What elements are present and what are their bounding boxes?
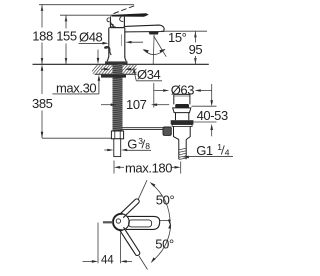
pivot corner ring	[111, 24, 114, 27]
dimension line 155	[65, 15, 67, 64]
tailpiece G 1 1/4	[178, 140, 180, 160]
arc 50 upper	[151, 184, 170, 224]
dimension line 95	[194, 31, 196, 64]
svg-text:8: 8	[145, 141, 150, 151]
counter bottom line	[95, 73, 137, 75]
dimension 107 (projection)	[101, 104, 112, 106]
inner cap circle	[116, 219, 120, 223]
svg-text:Ø34: Ø34	[137, 67, 161, 82]
dimension Ø63	[154, 90, 163, 92]
faucet body	[108, 28, 110, 58]
svg-text:95: 95	[189, 42, 203, 57]
counter hatching	[88, 62, 145, 76]
base flare + gasket	[107, 57, 127, 62]
aerator (dark band under spout tip)	[149, 32, 159, 35]
body reflection line	[121, 34, 123, 46]
extension line top (188 upper reference)	[39, 4, 134, 6]
40-53 extension lines	[192, 105, 217, 107]
svg-text:50°: 50°	[156, 193, 175, 208]
pop-up waste: plug head	[174, 94, 190, 104]
svg-text:max.30: max.30	[56, 80, 96, 95]
extension line spout tip (95 upper ref)	[161, 30, 207, 32]
svg-text:107: 107	[126, 97, 147, 112]
seal dark band	[175, 104, 189, 108]
waste upper body	[175, 113, 177, 121]
Ø34 small arrows at hole	[101, 68, 106, 70]
locknut (dark)	[171, 120, 194, 124]
shank mounting nut	[111, 131, 123, 139]
faucet lever (dark wedge)	[112, 13, 149, 17]
svg-text:50°: 50°	[155, 237, 174, 252]
svg-text:44: 44	[101, 255, 114, 267]
dashed lever raised position	[114, 6, 135, 14]
svg-text:15°: 15°	[168, 30, 187, 45]
water stream line	[152, 35, 155, 64]
rod knob	[163, 127, 171, 135]
15 degree arc with arrows	[144, 50, 165, 55]
pivot left hook	[107, 18, 110, 22]
svg-text:385: 385	[32, 96, 53, 111]
dimension line 188	[41, 5, 43, 64]
extension line (outlet axis)	[153, 83, 155, 108]
svg-text:1: 1	[217, 142, 222, 152]
svg-text:Ø48: Ø48	[79, 30, 103, 45]
extension line (155 upper reference)	[60, 14, 114, 16]
dimension G 3/8 tube arrows	[104, 149, 109, 151]
mounting washer under counter	[101, 75, 126, 78]
reference line at shank-nut bottom	[42, 137, 112, 139]
svg-text:G: G	[127, 136, 137, 151]
spout stub (plan)	[103, 221, 113, 223]
arc 50 lower	[152, 225, 171, 262]
svg-text:3: 3	[138, 136, 143, 146]
spout	[125, 25, 165, 32]
handle straight (plan)	[126, 216, 160, 229]
pivot circle	[113, 214, 129, 230]
15 degree slant line	[154, 36, 167, 57]
waste lower body	[174, 126, 191, 139]
flange	[173, 108, 191, 113]
supply tube (G 3/8)	[114, 139, 121, 157]
threaded shank below/through counter	[113, 64, 123, 131]
pull-rod hook behind body	[105, 47, 112, 55]
reference line straight (plan)	[160, 220, 171, 222]
dimension 44	[97, 223, 99, 264]
svg-text:155: 155	[56, 28, 77, 43]
pop-up linkage rod	[123, 127, 164, 129]
leader arrow down to counter (under Ø48)	[97, 50, 99, 60]
handle rotated up 50	[120, 199, 139, 218]
svg-text:max.180: max.180	[125, 160, 172, 175]
arrow right side of body (Ø48)	[130, 41, 143, 43]
dimension max.180	[113, 161, 115, 174]
faucet pivot/cartridge	[110, 16, 124, 27]
dimension line 385	[41, 67, 43, 138]
dimension 40-53	[211, 84, 213, 136]
svg-text:40-53: 40-53	[197, 108, 228, 123]
handle rotated down 50	[120, 227, 140, 255]
svg-text:G1: G1	[196, 143, 213, 158]
countertop line	[33, 63, 209, 65]
svg-text:188: 188	[32, 28, 53, 43]
